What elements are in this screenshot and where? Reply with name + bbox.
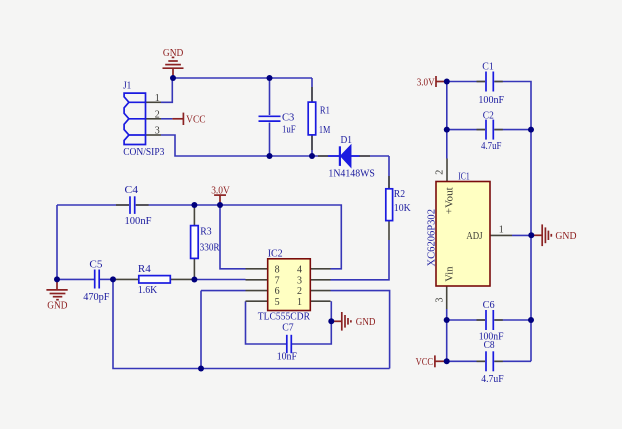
svg-text:XC6206P302: XC6206P302 xyxy=(426,209,438,267)
svg-text:100nF: 100nF xyxy=(125,215,152,227)
svg-text:GND: GND xyxy=(47,299,67,311)
svg-text:3: 3 xyxy=(434,298,445,303)
svg-text:1N4148WS: 1N4148WS xyxy=(328,167,375,179)
svg-text:470pF: 470pF xyxy=(83,291,109,303)
svg-text:J1: J1 xyxy=(123,79,131,91)
svg-text:R2: R2 xyxy=(394,188,405,200)
svg-text:R4: R4 xyxy=(138,263,152,275)
svg-text:1.6K: 1.6K xyxy=(138,284,158,296)
svg-text:3.0V: 3.0V xyxy=(417,76,435,88)
svg-text:1: 1 xyxy=(297,297,302,308)
svg-text:VCC: VCC xyxy=(416,356,434,368)
svg-text:100nF: 100nF xyxy=(478,94,504,106)
svg-text:C4: C4 xyxy=(125,184,139,196)
svg-text:C5: C5 xyxy=(89,258,102,270)
svg-text:CON/SIP3: CON/SIP3 xyxy=(123,146,164,158)
svg-text:ADJ: ADJ xyxy=(466,231,482,242)
svg-text:Vin: Vin xyxy=(444,267,455,282)
svg-text:GND: GND xyxy=(356,316,376,328)
svg-text:4: 4 xyxy=(297,264,302,275)
svg-text:330R: 330R xyxy=(200,242,221,254)
svg-text:10nF: 10nF xyxy=(277,351,297,363)
svg-text:8: 8 xyxy=(275,264,280,275)
svg-text:C1: C1 xyxy=(482,61,494,73)
svg-text:1: 1 xyxy=(155,93,160,104)
svg-text:7: 7 xyxy=(275,275,280,286)
svg-text:4.7uF: 4.7uF xyxy=(481,140,502,152)
svg-text:R3: R3 xyxy=(200,225,211,237)
svg-text:C2: C2 xyxy=(483,110,494,122)
svg-text:1uF: 1uF xyxy=(282,124,296,136)
svg-text:+Vout: +Vout xyxy=(444,187,455,214)
svg-text:VCC: VCC xyxy=(186,113,206,125)
svg-text:C3: C3 xyxy=(282,112,294,124)
svg-text:IC1: IC1 xyxy=(458,170,470,182)
svg-text:6: 6 xyxy=(275,286,280,297)
svg-text:2: 2 xyxy=(155,109,160,120)
svg-text:3.0V: 3.0V xyxy=(211,184,230,196)
svg-text:2: 2 xyxy=(297,286,302,297)
svg-text:4.7uF: 4.7uF xyxy=(481,373,503,385)
svg-text:GND: GND xyxy=(163,47,184,59)
svg-text:C6: C6 xyxy=(483,299,496,311)
svg-text:3: 3 xyxy=(297,275,302,286)
svg-text:IC2: IC2 xyxy=(268,248,283,260)
svg-text:GND: GND xyxy=(555,230,576,242)
svg-text:C7: C7 xyxy=(282,321,294,333)
svg-text:10K: 10K xyxy=(394,202,411,214)
svg-text:2: 2 xyxy=(434,170,445,175)
svg-text:5: 5 xyxy=(275,297,280,308)
svg-text:C8: C8 xyxy=(484,339,495,351)
svg-text:R1: R1 xyxy=(320,105,330,117)
svg-text:D1: D1 xyxy=(341,134,353,146)
svg-text:1: 1 xyxy=(499,224,504,235)
svg-text:3: 3 xyxy=(155,126,160,137)
svg-text:1M: 1M xyxy=(319,124,331,136)
